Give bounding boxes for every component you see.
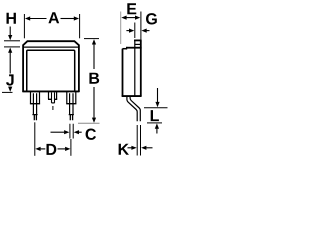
side view body step vertical: [126, 47, 128, 50]
dimension A arrow right: [74, 16, 79, 20]
lead 3 tip edges: [70, 115, 72, 120]
lead 2 (center, cut short) wide section: [49, 92, 57, 99]
side view lead: [127, 96, 137, 121]
dimension H extension line top: [4, 40, 20, 42]
dimension L extension line bottom: [147, 122, 162, 124]
dimension C extension lines: [70, 124, 73, 139]
side view body bottom: [122, 95, 142, 97]
lead 2 stub bottom: [52, 102, 55, 104]
dimension B label: [89, 73, 99, 84]
side view tab left edge: [134, 40, 136, 96]
dimension L arrow down: [157, 88, 159, 102]
dimension A extension line right: [79, 14, 81, 38]
dimension G extension line left: [134, 23, 136, 39]
dimension E extension line left: [120, 12, 122, 45]
dimension B extension line top: [84, 38, 99, 40]
body bottom edge: [22, 90, 79, 92]
dimension J arrow up (shared with H): [8, 48, 12, 53]
dimension G arrow left: [126, 30, 129, 32]
dimension C arrow right: [74, 130, 79, 134]
lead 2 inner lines: [52, 93, 55, 103]
lead 1 narrow profile lines: [33, 93, 36, 114]
dimension L extension line top: [144, 107, 168, 109]
dimension J extension line bottom: [2, 91, 13, 93]
side view tab top: [134, 39, 142, 41]
dimension H arrow down: [9, 27, 11, 36]
side view right edge: [140, 40, 142, 96]
dimension L arrow up: [155, 123, 159, 128]
dimension K label: [119, 144, 129, 155]
dimension C arrow left: [51, 131, 65, 133]
dimension B arrow up: [92, 39, 96, 44]
tab/mold parting line: [23, 46, 79, 48]
dimension A arrow left: [25, 16, 30, 20]
dimension K extension lines: [137, 125, 140, 156]
lead 1 step bar: [30, 103, 40, 105]
lead 1 tip bar: [32, 114, 37, 116]
dimension K arrow right: [141, 146, 146, 150]
dimension D extension line right: [70, 139, 72, 156]
dimension E extension line right: [140, 12, 142, 40]
dimension G arrow right: [141, 29, 146, 33]
dimension J arrow down: [9, 86, 11, 89]
dimension B extension line bottom: [78, 122, 100, 124]
lead 1 tip edges: [34, 115, 36, 120]
dimension D arrow left: [35, 147, 40, 151]
dimension C label: [86, 129, 96, 140]
dimension E arrows: [121, 16, 126, 20]
lead 3 step bar: [66, 103, 76, 105]
lead 3 tip bar: [69, 114, 74, 116]
side view body top: [127, 47, 142, 49]
dimension E label: [127, 3, 136, 14]
dimension H label: [7, 13, 16, 24]
lead 2 centerline tick: [52, 106, 54, 110]
lead 2 step shoulders: [48, 98, 57, 100]
dimension K arrow left: [128, 147, 132, 149]
dimension A label: [48, 12, 59, 23]
dimension J label: [6, 74, 14, 85]
lead 3 (right) wide section: [67, 92, 76, 103]
dimension D arrow right: [58, 148, 66, 150]
lead 3 narrow profile lines: [70, 93, 73, 114]
dimension D extension line left: [34, 122, 36, 156]
dimension D label: [46, 144, 56, 155]
dimension B arrow down: [93, 87, 95, 118]
dimension L label: [151, 110, 159, 121]
side view body left edge: [122, 49, 124, 96]
dimension G label: [146, 13, 157, 24]
inner mold face rectangle: [27, 50, 75, 91]
side view tab inner line: [135, 43, 141, 45]
package body outline (front view): [23, 41, 79, 92]
side view body top step: [122, 48, 126, 50]
lead 1 (left) wide section: [31, 92, 40, 103]
dimension A extension line left: [23, 14, 25, 38]
dimension H extension line bottom: [4, 46, 20, 48]
